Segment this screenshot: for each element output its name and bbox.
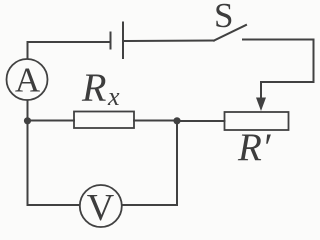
wire ammeter bottom to left node [27,101,29,122]
wire switch to top-right corner, down right side [243,40,314,83]
wire battery to switch [124,40,214,43]
switch S (arm) [214,25,246,41]
voltmeter circle [80,185,122,227]
node left (junction dot) [24,117,31,124]
svg-text:V: V [87,187,115,229]
svg-text:A: A [15,61,41,100]
wire top-left (battery to top-left corner and down to ammeter) [28,42,111,59]
rheostat R' box [225,112,289,130]
resistor Rx box [74,112,134,129]
battery [111,23,124,59]
wire right corner to wiper [261,81,314,83]
wire right node to resistor [134,120,177,122]
node right (junction dot) [173,117,180,124]
svg-text:x: x [107,82,120,111]
svg-text:S: S [214,0,233,35]
wire voltmeter to right bottom corner, up to right node [122,121,177,205]
svg-text:R′: R′ [237,126,271,169]
wire resistor to left node [27,120,74,122]
wire rheostat to right node [177,120,225,122]
wire left vertical down to bottom loop [28,121,81,205]
svg-text:R: R [81,65,106,110]
wiper arrow into rheostat [260,82,262,103]
ammeter U circle [7,59,48,100]
wiper arrowhead [256,98,266,112]
